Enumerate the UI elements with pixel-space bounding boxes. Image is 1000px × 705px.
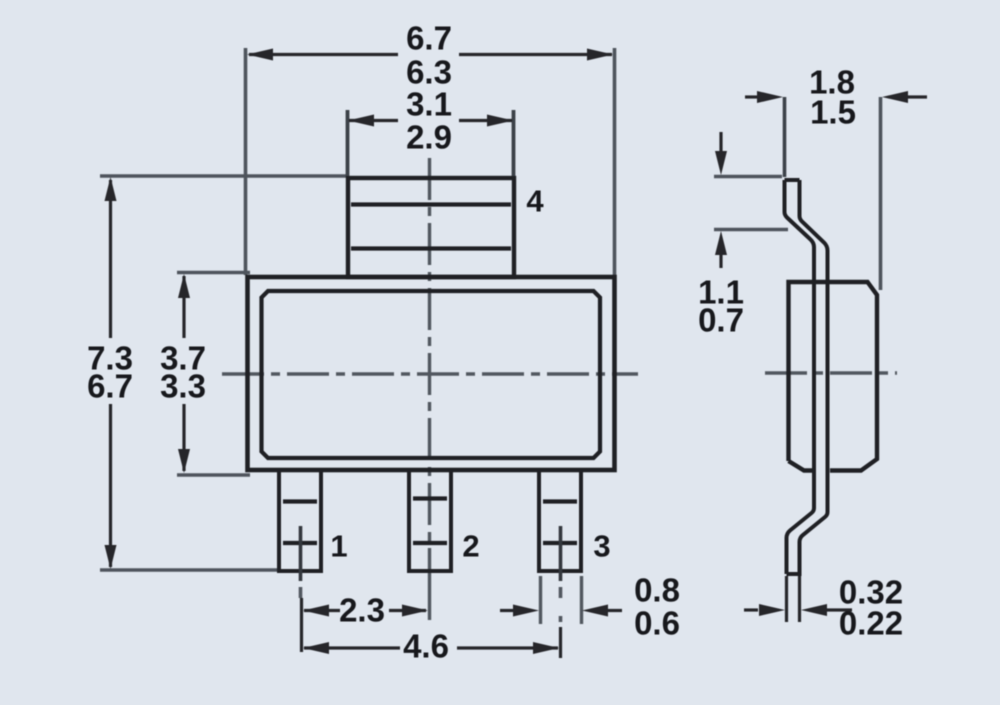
svg-text:0.7: 0.7 [698, 302, 744, 339]
pin 2 inner line [413, 496, 447, 500]
svg-text:0.6: 0.6 [634, 605, 680, 642]
dimension 2.3 [302, 598, 429, 652]
dimension 0.32/0.22 lead thickness [744, 576, 852, 622]
svg-text:4: 4 [526, 184, 544, 219]
body outer outline [248, 277, 615, 470]
svg-text:2.3: 2.3 [339, 592, 385, 629]
tab inner line lower [351, 246, 511, 250]
pin 2 cross line [413, 541, 447, 545]
svg-text:3: 3 [593, 529, 610, 564]
side centerline horizontal [765, 371, 897, 374]
extension line left (6.7 dim) [244, 48, 248, 275]
dimension 4.6 [303, 627, 561, 658]
pin 3 outline [539, 470, 581, 571]
extension lines 3.1 dim [346, 110, 350, 176]
dimension 3.1/2.9 [348, 115, 513, 127]
side lead strip (tab through body to pin) [785, 180, 828, 576]
extension line body top to 3.7 dim [177, 271, 250, 275]
pin 2 outline [409, 470, 451, 571]
centerline horizontal (body axis) [222, 372, 638, 375]
extension line body bottom to 3.7 dim [177, 473, 250, 477]
svg-text:1.5: 1.5 [810, 94, 856, 131]
svg-text:2: 2 [462, 529, 479, 564]
pin 3 centerline dot below [559, 587, 563, 598]
svg-text:4.6: 4.6 [403, 628, 449, 665]
side extension line right (1.8) [879, 97, 883, 290]
svg-text:3.3: 3.3 [160, 368, 206, 405]
dimension 1.8/1.5 [745, 91, 927, 103]
pin 1 inner line [283, 499, 317, 503]
side body outline [789, 282, 878, 471]
pin 1 cross line [283, 541, 317, 545]
svg-text:6.7: 6.7 [87, 368, 133, 405]
svg-text:6.7: 6.7 [406, 20, 452, 57]
pin 3 centerline segment [559, 526, 563, 581]
extension line tab top to 7.3 dim [100, 174, 347, 178]
side extension line left (1.8) [783, 97, 787, 177]
dimension 6.7/6.3 top [247, 49, 613, 61]
svg-text:0.22: 0.22 [839, 605, 903, 642]
pin 3 centerline dot below 2 [559, 616, 563, 622]
svg-text:3.1: 3.1 [406, 86, 452, 123]
pin 1 centerline dot below [299, 587, 303, 598]
centerline vertical (body axis) [428, 158, 431, 620]
extension lines 1.1 dim [714, 175, 782, 179]
svg-text:0.8: 0.8 [634, 572, 680, 609]
svg-text:1: 1 [330, 529, 347, 564]
tab inner line upper [351, 202, 511, 206]
svg-text:2.9: 2.9 [406, 119, 452, 156]
dimension 7.3/6.7 left vertical [105, 177, 117, 569]
tab (pin 4) outline [348, 178, 514, 277]
pin 1 outline [279, 470, 321, 571]
pin 3 cross line [543, 541, 577, 545]
body inner outline with chamfered corners [262, 291, 601, 458]
extension line right (6.7 dim) [613, 48, 617, 275]
extension line pin bottom to 7.3 dim [100, 568, 281, 572]
dimension 1.1/0.7 arrows [715, 132, 727, 268]
dimension 0.8/0.6 pin width [500, 576, 622, 624]
pin 1 centerline segment [299, 526, 303, 581]
pin 3 inner line [543, 499, 577, 503]
dimension 3.7/3.3 vertical [178, 274, 190, 473]
